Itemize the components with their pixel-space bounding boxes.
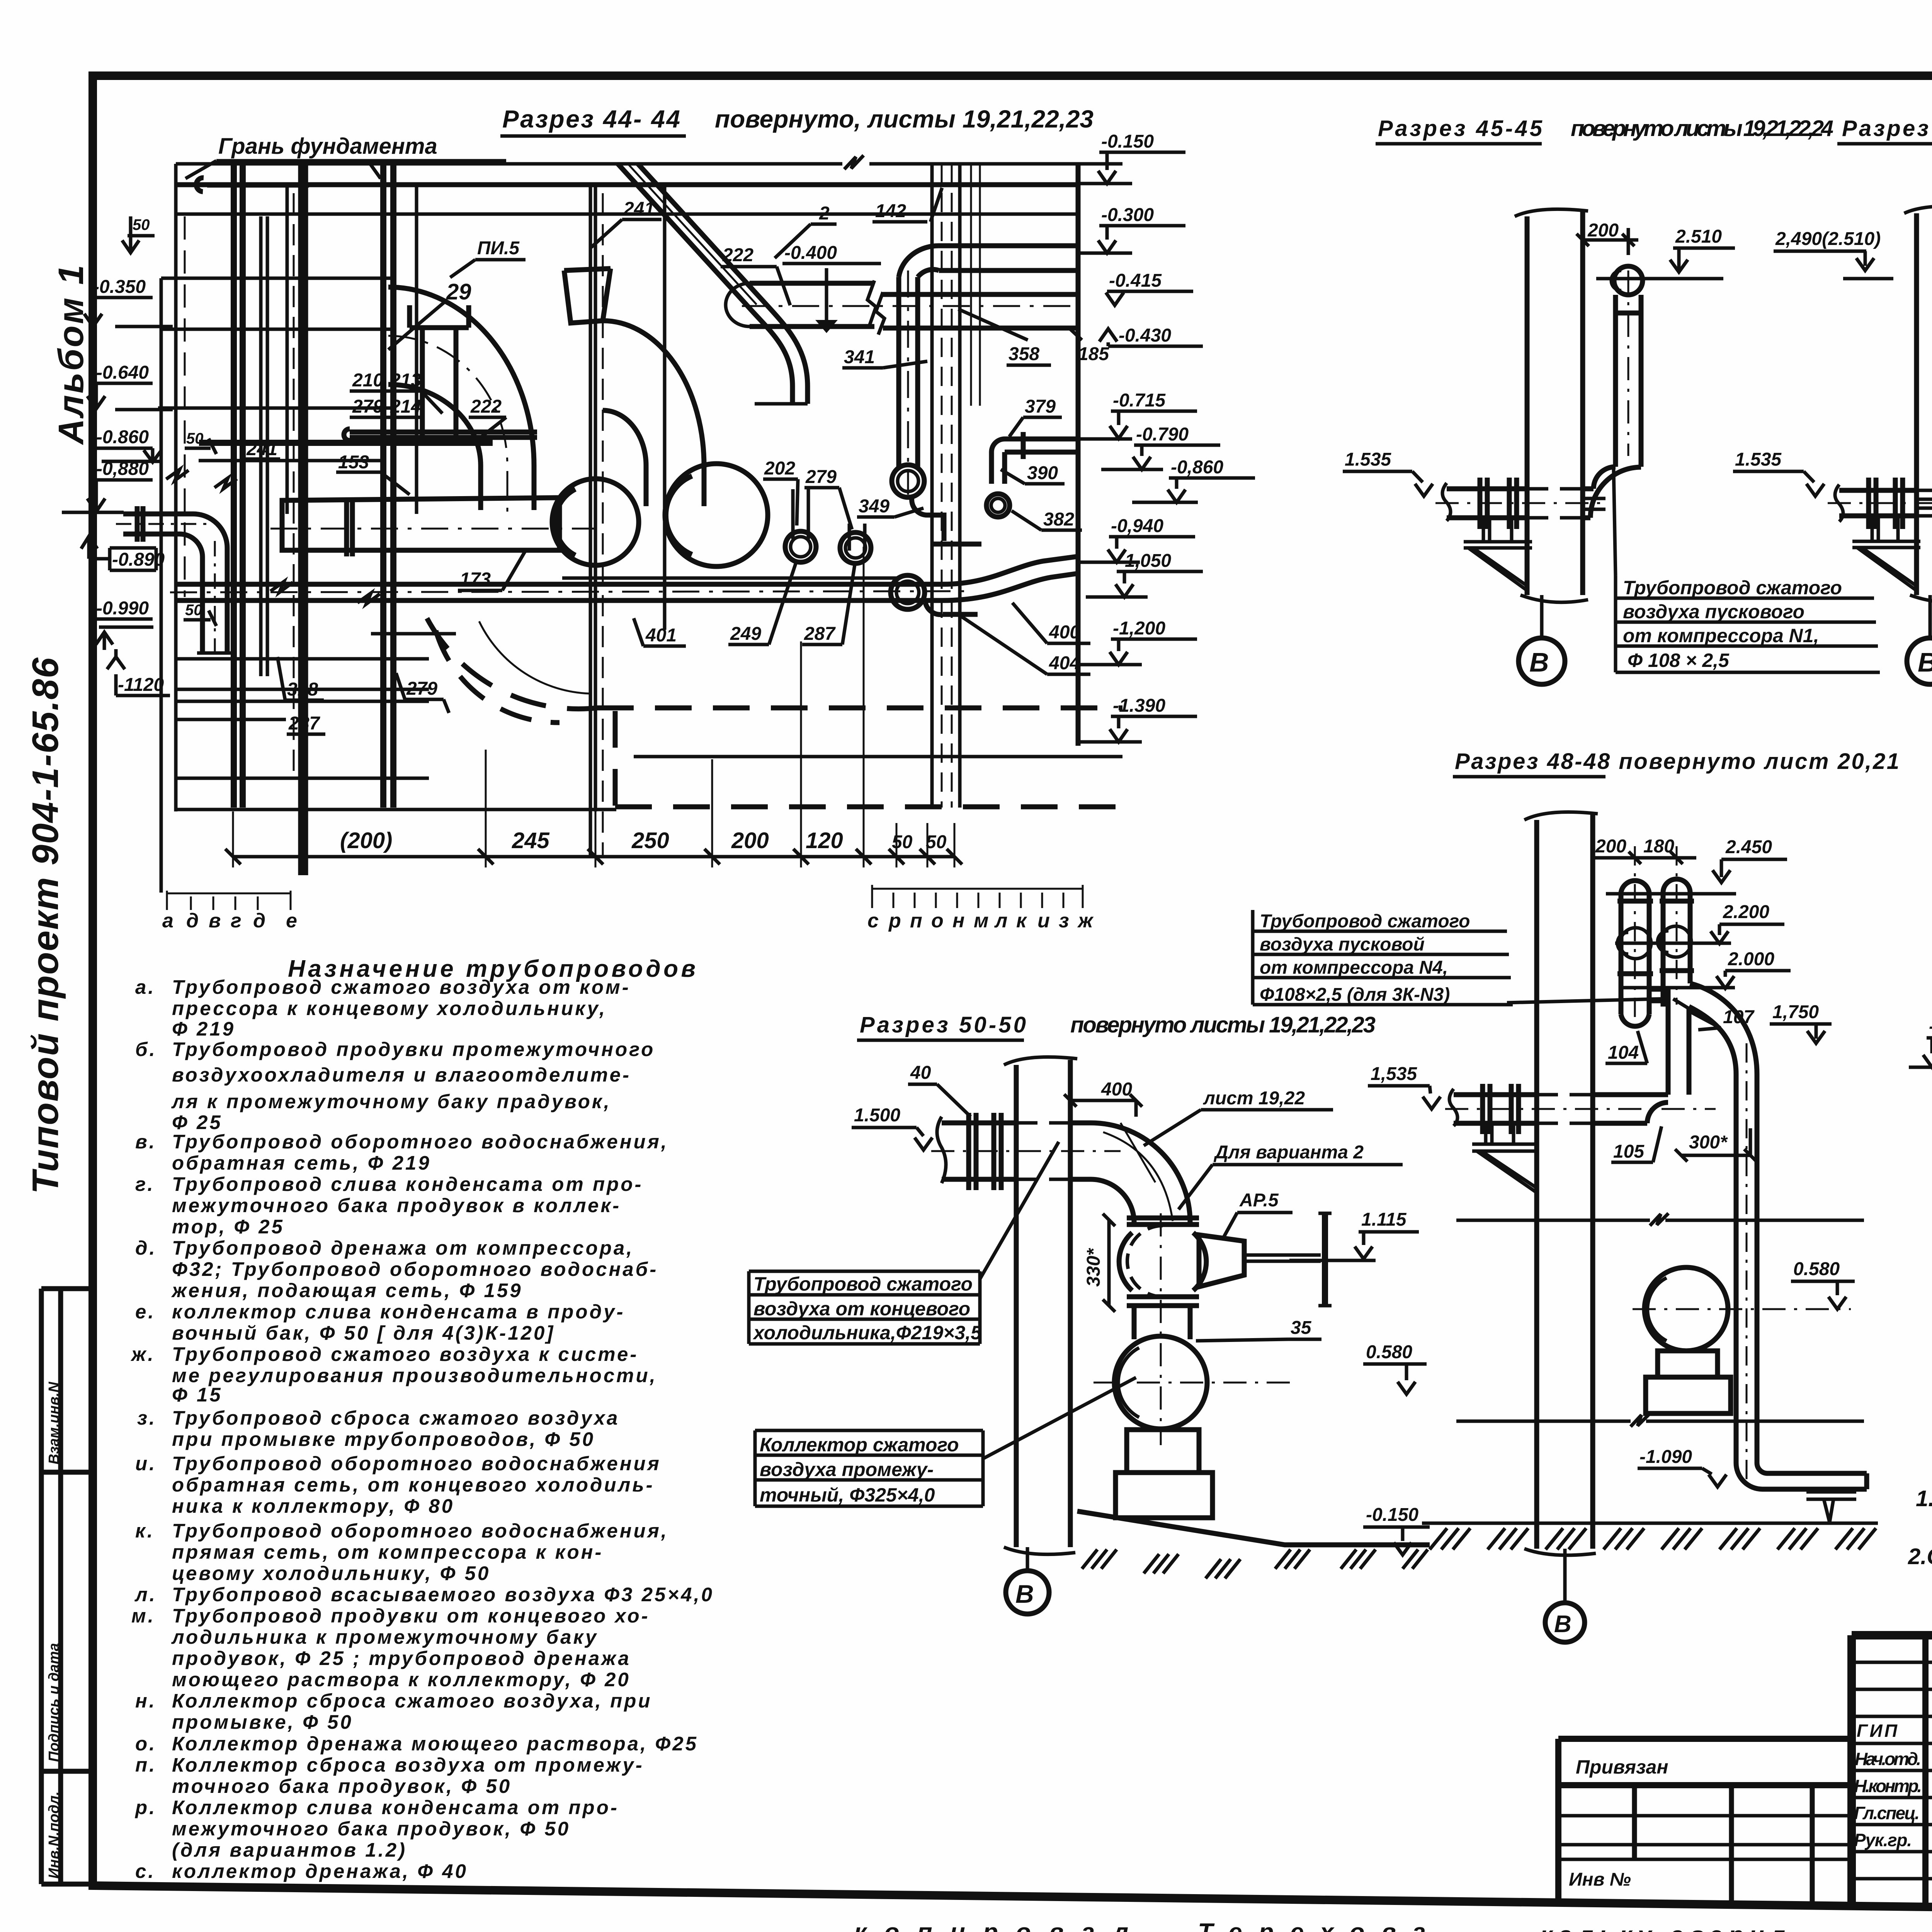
svg-text:Взам.инв.N: Взам.инв.N: [46, 1381, 62, 1464]
svg-text:1.500: 1.500: [854, 1105, 900, 1126]
svg-text:104: 104: [1608, 1043, 1639, 1063]
thin pipe under labels: [344, 429, 537, 440]
svg-text:2,490(2.510): 2,490(2.510): [1775, 229, 1881, 249]
svg-text:л: л: [994, 910, 1007, 932]
svg-text:200: 200: [1595, 836, 1626, 857]
svg-text:Трубопровод всасываемого возд: Трубопровод всасываемого воздуха Ф3 25×4…: [172, 1583, 714, 1605]
svg-text:АР.5: АР.5: [1239, 1190, 1279, 1211]
svg-text:повернуто листы 19,21,22,24: повернуто листы 19,21,22,24: [1571, 116, 1833, 141]
svg-text:лодильника к промежуточному: лодильника к промежуточному баку: [171, 1626, 598, 1648]
svg-text:Грань фундамента: Грань фундамента: [218, 134, 437, 159]
svg-text:Разрез 48-48 повернуто лист 2: Разрез 48-48 повернуто лист 20,21: [1455, 749, 1899, 774]
right elbow funnel top: [564, 269, 611, 323]
svg-text:-0.430: -0.430: [1119, 325, 1171, 346]
big pipe band B: [750, 283, 1078, 328]
svg-text:В: В: [1554, 1611, 1571, 1638]
diagonal pipe: [618, 164, 808, 404]
s48 B circle: [1563, 1549, 1567, 1603]
section 48-48: [1253, 749, 1899, 1642]
svg-text:В: В: [1015, 1580, 1034, 1608]
stamp roles: [1854, 1721, 1932, 1850]
svg-text:н: н: [952, 910, 964, 932]
svg-text:Нач.отд.: Нач.отд.: [1855, 1749, 1921, 1769]
svg-text:241: 241: [623, 199, 655, 219]
svg-text:р.: р.: [134, 1796, 156, 1818]
svg-text:б.: б.: [135, 1038, 157, 1060]
s48 riser valves: [1620, 928, 1651, 959]
svg-text:185: 185: [1078, 344, 1109, 364]
svg-text:Подпись и дата: Подпись и дата: [46, 1643, 62, 1762]
horizontal levels left: [158, 278, 390, 408]
svg-text:г.: г.: [135, 1173, 155, 1195]
svg-text:Трубопровод сжатого: Трубопровод сжатого: [1623, 577, 1842, 599]
dashed cut arc: [427, 618, 597, 709]
dim extension verticals: [233, 547, 954, 867]
svg-text:-0.715: -0.715: [1113, 390, 1166, 411]
purpose list: [130, 956, 714, 1882]
cut squiggle: [844, 155, 864, 169]
mid verticals: [286, 185, 289, 514]
svg-text:ме регулирования производител: ме регулирования производительности,: [172, 1364, 657, 1386]
svg-text:з: з: [1059, 910, 1069, 932]
s46 column: [1917, 209, 1932, 595]
svg-text:210: 210: [352, 370, 383, 391]
svg-text:Н.контр.: Н.контр.: [1854, 1776, 1922, 1796]
svg-text:-0.350: -0.350: [93, 277, 146, 297]
s46 horizontal pipe: [1839, 490, 1932, 516]
thick pillar 2: [383, 162, 393, 808]
section 50-50: [749, 1012, 1440, 1614]
svg-text:2.Отметка в скобках дана дл: 2.Отметка в скобках дана для вариантов 1…: [1908, 1544, 1932, 1569]
svg-text:воздуха от концевого: воздуха от концевого: [753, 1298, 970, 1320]
svg-text:287: 287: [288, 713, 320, 734]
svg-text:з.: з.: [137, 1407, 156, 1429]
svg-text:142: 142: [875, 201, 906, 221]
svg-text:Ф 108 × 2,5: Ф 108 × 2,5: [1628, 650, 1730, 671]
s46 B circle: [1929, 595, 1932, 638]
svg-text:400: 400: [1101, 1079, 1132, 1100]
construction verticals right part: [590, 185, 595, 857]
svg-text:404: 404: [1049, 653, 1080, 673]
bottom text: [854, 1918, 1932, 1932]
stub pipe C: [992, 439, 1078, 484]
svg-text:коллектор слива конденсата: коллектор слива конденсата в проду-: [172, 1301, 625, 1323]
floor line right of circles: [371, 578, 900, 634]
svg-text:к: к: [1016, 910, 1027, 932]
svg-text:о.: о.: [135, 1733, 156, 1755]
flange ticks pipe 173 left: [347, 498, 352, 556]
svg-text:349: 349: [859, 496, 889, 517]
svg-text:Гл.спец.: Гл.спец.: [1854, 1803, 1920, 1823]
svg-text:-0,880: -0,880: [96, 459, 149, 479]
svg-text:200: 200: [1587, 220, 1619, 241]
svg-text:вочный бак, Ф 50 [ для 4(3)К-: вочный бак, Ф 50 [ для 4(3)К-120]: [172, 1322, 555, 1344]
s45 B circle: [1540, 595, 1544, 638]
svg-text:Коллектор слива конденсата: Коллектор слива конденсата от про-: [172, 1796, 619, 1818]
svg-text:-0.790: -0.790: [1929, 1016, 1932, 1037]
svg-text:-1.390: -1.390: [1113, 696, 1165, 716]
svg-text:Трубопровод сжатого воздуха от: Трубопровод сжатого воздуха от ком-: [172, 976, 631, 998]
flange circle on pipe 400: [891, 575, 925, 609]
svg-text:358: 358: [1009, 344, 1039, 364]
attach table Привязан: [1558, 1739, 1852, 1904]
sections 45 46 47: [1343, 116, 1932, 684]
svg-text:-1.090: -1.090: [1639, 1447, 1692, 1467]
svg-text:о: о: [931, 910, 944, 932]
right elbow 213 inner: [603, 410, 646, 506]
svg-text:ГИП: ГИП: [1857, 1721, 1898, 1741]
svg-text:а: а: [162, 910, 173, 932]
long bottom pipe 400: [176, 556, 1078, 600]
vertical pipe V1 with top elbow: [899, 246, 939, 467]
svg-text:1,750: 1,750: [1772, 1002, 1819, 1022]
svg-text:-0.415: -0.415: [1109, 270, 1162, 291]
svg-text:200: 200: [731, 828, 769, 853]
svg-text:153: 153: [338, 452, 369, 473]
svg-text:2.200: 2.200: [1723, 902, 1769, 922]
svg-text:-0.860: -0.860: [96, 427, 149, 447]
svg-text:2.000: 2.000: [1728, 949, 1774, 969]
svg-text:249: 249: [730, 624, 761, 644]
s50 label box 1: [749, 1142, 1059, 1344]
svg-text:Инв №: Инв №: [1569, 1869, 1631, 1890]
s50 pipe below valve: [1134, 1306, 1190, 1339]
svg-text:Трубопровод оборотного водосн: Трубопровод оборотного водоснабжения,: [172, 1520, 668, 1542]
svg-text:-0,940: -0,940: [1111, 516, 1163, 536]
svg-text:Трубопровод оборотного водосна: Трубопровод оборотного водоснабжения,: [172, 1131, 668, 1153]
svg-text:от компрессора N1,: от компрессора N1,: [1623, 625, 1819, 646]
bottom dimension line: [233, 855, 954, 859]
svg-text:ж: ж: [1077, 910, 1094, 932]
flange circle on V1: [892, 465, 924, 497]
svg-text:в.: в.: [135, 1131, 156, 1153]
svg-text:Ф 25: Ф 25: [172, 1111, 223, 1133]
svg-text:50: 50: [926, 832, 947, 852]
svg-text:промывке, Ф 50: промывке, Ф 50: [172, 1711, 353, 1733]
svg-text:цевому холодильнику, Ф 50: цевому холодильнику, Ф 50: [172, 1562, 490, 1584]
small pipe pair with circles: [793, 489, 865, 551]
svg-text:Ф 15: Ф 15: [172, 1384, 223, 1406]
s50 label box 2: [755, 1378, 1136, 1506]
pipe 173 band: [282, 498, 560, 550]
svg-text:Разрез 46-46: Разрез 46-46: [1842, 116, 1932, 141]
lower area lines: [176, 659, 616, 810]
s48 horizontal pipe: [1454, 1095, 1668, 1123]
hook symbol top left: [196, 178, 309, 192]
svg-text:Шась: Шась: [1812, 1930, 1866, 1932]
svg-text:г: г: [231, 910, 241, 932]
svg-text:при промывке трубопроводов,: при промывке трубопроводов, Ф 50: [172, 1428, 595, 1450]
svg-text:1.115: 1.115: [1361, 1209, 1407, 1230]
construction verticals left: [161, 164, 176, 893]
svg-text:-0.150: -0.150: [1366, 1505, 1418, 1525]
left margin boxes: [25, 264, 93, 1884]
svg-text:222: 222: [470, 396, 502, 417]
svg-text:Для варианта 2: Для варианта 2: [1213, 1142, 1364, 1163]
svg-text:повернуто, листы 19,21,22,23: повернуто, листы 19,21,22,23: [715, 105, 1094, 133]
big elbow 29 centerline: [388, 336, 507, 514]
svg-text:2.450: 2.450: [1725, 837, 1772, 857]
svg-text:50: 50: [133, 216, 150, 233]
section 49-49: [0, 0, 0, 0]
axis letters right: [867, 910, 1094, 932]
svg-text:точного бака продувок, Ф 50: точного бака продувок, Ф 50: [172, 1775, 512, 1797]
svg-text:50: 50: [185, 602, 202, 619]
svg-text:2: 2: [819, 203, 830, 224]
s50 handwheel: [1322, 1213, 1328, 1306]
s45 label box: [1614, 469, 1880, 672]
svg-text:ля к промежуточному баку праду: ля к промежуточному баку прадувок,: [171, 1090, 611, 1112]
svg-text:Ф 219: Ф 219: [172, 1018, 235, 1040]
svg-text:Привязан: Привязан: [1576, 1756, 1668, 1778]
svg-text:В: В: [1529, 647, 1549, 677]
margin box Подпись и дата: [41, 1769, 93, 1774]
stamp outer border: [1852, 1635, 1932, 1906]
s50 big circle: [1114, 1336, 1207, 1429]
svg-text:п.: п.: [135, 1754, 156, 1776]
svg-text:ПИ.5: ПИ.5: [477, 238, 520, 259]
margin box Инв.N подл.: [41, 1882, 93, 1887]
svg-text:Коллектор сброса воздуха от: Коллектор сброса воздуха от промежу-: [172, 1754, 644, 1776]
svg-text:(для вариантов 1.2): (для вариантов 1.2): [172, 1839, 407, 1861]
svg-text:продувок, Ф 25 ; трубопровод: продувок, Ф 25 ; трубопровод дренажа: [172, 1647, 631, 1669]
svg-text:воздуха промежу-: воздуха промежу-: [760, 1459, 934, 1480]
svg-text:330*: 330*: [1083, 1248, 1104, 1287]
svg-text:межуточного бака продувок в: межуточного бака продувок в коллек-: [172, 1194, 621, 1216]
svg-text:-0.150: -0.150: [1101, 131, 1154, 152]
svg-text:Трубопровод сжатого: Трубопровод сжатого: [753, 1273, 973, 1295]
svg-text:е.: е.: [135, 1301, 156, 1323]
svg-text:ника к коллектору, Ф 80: ника к коллектору, Ф 80: [172, 1495, 454, 1517]
svg-text:-0.790: -0.790: [1136, 424, 1189, 445]
svg-text:-0.400: -0.400: [784, 243, 837, 263]
break squiggles: [166, 469, 380, 604]
slab line thick: [199, 440, 493, 446]
svg-text:лист 19,22: лист 19,22: [1203, 1088, 1305, 1109]
svg-text:Коллектор сброса сжатого во: Коллектор сброса сжатого воздуха, при: [172, 1690, 652, 1712]
svg-text:245: 245: [512, 828, 550, 853]
left flange ticks: [137, 506, 143, 542]
PI5 column funnel: [410, 305, 469, 440]
svg-text:от компрессора N4,: от компрессора N4,: [1260, 957, 1448, 978]
svg-text:Трубопровод слива конденсата: Трубопровод слива конденсата от про-: [172, 1173, 643, 1195]
big circle 2: [665, 464, 768, 566]
svg-text:и: и: [1037, 910, 1050, 932]
svg-text:п: п: [910, 910, 922, 932]
axis letters left: [162, 910, 297, 932]
svg-text:-0,860: -0,860: [1171, 457, 1223, 478]
svg-text:воздуха пускового: воздуха пускового: [1623, 601, 1804, 622]
svg-text:Типовой проект 904-1-65.86: Типовой проект 904-1-65.86: [25, 657, 66, 1194]
s45 riser pipe: [1590, 295, 1641, 518]
s48 pedestal: [1646, 1351, 1731, 1413]
svg-text:В: В: [1918, 647, 1932, 677]
s50 column: [1016, 1060, 1070, 1547]
svg-text:Ф108×2,5 (для 3К-N3): Ф108×2,5 (для 3К-N3): [1260, 985, 1450, 1005]
s50 horizontal pipe: [942, 1123, 1091, 1179]
svg-text:д: д: [186, 910, 199, 932]
svg-text:-1120: -1120: [118, 675, 164, 695]
svg-text:повернуто листы 19,21,22,23: повернуто листы 19,21,22,23: [1070, 1012, 1376, 1037]
svg-text:107: 107: [1723, 1007, 1755, 1027]
s50 valve bonnet: [1199, 1235, 1244, 1287]
svg-text:0.580: 0.580: [1793, 1259, 1840, 1279]
s48 left label box N4: [1253, 910, 1662, 1005]
svg-text:Разрез 44- 44: Разрез 44- 44: [502, 105, 680, 133]
svg-text:тор, Ф 25: тор, Ф 25: [172, 1216, 284, 1238]
svg-text:279: 279: [406, 679, 437, 699]
svg-text:40: 40: [910, 1063, 931, 1083]
svg-text:Труботровод продувки протежу: Труботровод продувки протежуточного: [172, 1038, 655, 1060]
svg-text:воздухоохладителя и влагоотдел: воздухоохладителя и влагоотделите-: [172, 1064, 631, 1086]
svg-text:межуточного бака продувок, Ф: межуточного бака продувок, Ф 50: [172, 1818, 570, 1840]
svg-text:обратная сеть, от концевого хо: обратная сеть, от концевого холодиль-: [172, 1474, 655, 1496]
svg-text:Трубопровод сжатого: Трубопровод сжатого: [1260, 911, 1470, 932]
svg-text:моющего раствора к коллектор: моющего раствора к коллектору, Ф 20: [172, 1668, 631, 1690]
svg-text:-0.300: -0.300: [1101, 205, 1154, 225]
s50 valve body: [1127, 1226, 1163, 1297]
s50 elbow down: [1091, 1123, 1190, 1223]
second structure line: [176, 182, 1078, 187]
svg-text:м.: м.: [131, 1605, 155, 1627]
left elbow pipe: [123, 514, 227, 653]
s45 flanges: [1480, 478, 1517, 529]
title block: [1558, 1600, 1932, 1913]
svg-text:-1,050: -1,050: [1119, 551, 1171, 571]
svg-text:341: 341: [844, 347, 875, 367]
s48 S-bend to down pipe: [1689, 983, 1757, 1463]
svg-text:-0.990: -0.990: [96, 598, 149, 619]
svg-text:401: 401: [645, 625, 677, 646]
svg-text:с: с: [867, 910, 879, 932]
svg-text:прямая сеть, от компрессора: прямая сеть, от компрессора к кон-: [172, 1541, 603, 1563]
dashed region outline: [597, 708, 1122, 807]
svg-text:Рук.гр.: Рук.гр.: [1854, 1830, 1912, 1850]
svg-text:прессора к концевому холодильн: прессора к концевому холодильнику,: [172, 997, 607, 1019]
svg-text:382: 382: [1043, 509, 1074, 530]
svg-text:обратная сеть, Ф 219: обратная сеть, Ф 219: [172, 1152, 431, 1174]
svg-text:Трубопровод сжатого воздуха: Трубопровод сжатого воздуха к систе-: [172, 1343, 638, 1365]
top structure line: [176, 162, 1122, 166]
svg-text:Инв.N.подл.: Инв.N.подл.: [46, 1791, 62, 1879]
svg-text:воздуха пусковой: воздуха пусковой: [1260, 934, 1425, 955]
margin box Взам.инв.N: [41, 1289, 93, 1884]
section 44-44: [62, 105, 1255, 932]
svg-text:250: 250: [631, 828, 669, 853]
svg-text:(200): (200): [340, 828, 392, 853]
svg-text:400: 400: [1049, 622, 1080, 643]
svg-text:д: д: [253, 910, 265, 932]
stamp left grid rows: [1852, 1662, 1932, 1879]
svg-text:222: 222: [722, 245, 753, 265]
svg-text:1,535: 1,535: [1371, 1064, 1417, 1084]
svg-text:-0.640: -0.640: [96, 362, 149, 383]
svg-text:35: 35: [1291, 1318, 1312, 1338]
s48 flanges: [1483, 1084, 1519, 1134]
svg-text:Трубопровод дренажа от компр: Трубопровод дренажа от компрессора,: [172, 1237, 634, 1259]
s45 support bracket: [1464, 518, 1532, 590]
s48 pipe support pin: [1806, 1492, 1856, 1522]
svg-text:300*: 300*: [1689, 1132, 1728, 1153]
small circle 382: [986, 494, 1010, 517]
svg-text:холодильника,Ф219×3,5: холодильника,Ф219×3,5: [752, 1322, 982, 1344]
s50 B circle: [1026, 1547, 1029, 1571]
svg-text:ж.: ж.: [130, 1343, 155, 1365]
svg-text:Трубопровод оборотного водосн: Трубопровод оборотного водоснабжения: [172, 1452, 661, 1475]
s46 flanges: [1869, 478, 1903, 529]
svg-text:1.535: 1.535: [1735, 449, 1782, 470]
svg-text:213: 213: [390, 370, 421, 391]
svg-text:коллектор дренажа, Ф 40: коллектор дренажа, Ф 40: [172, 1860, 468, 1882]
s45 level line top: [1596, 277, 1723, 281]
big elbow 29 outer: [388, 287, 534, 510]
svg-text:с.: с.: [135, 1860, 156, 1882]
s48 support bracket: [1472, 1123, 1537, 1192]
pipe band A right: [939, 246, 1078, 270]
svg-text:р: р: [888, 910, 901, 932]
hook 349: [912, 497, 981, 544]
stamp left grid verticals: [1925, 1635, 1932, 1910]
right wall line: [1076, 162, 1081, 746]
svg-text:Трубопровод сброса сжатого: Трубопровод сброса сжатого воздуха: [172, 1407, 619, 1429]
svg-text:Разрез 45-45: Разрез 45-45: [1378, 116, 1543, 141]
svg-text:м: м: [974, 910, 988, 932]
svg-text:а.: а.: [135, 976, 156, 998]
svg-text:е: е: [286, 910, 297, 932]
section 49-49: [1908, 747, 1932, 1569]
svg-text:105: 105: [1613, 1141, 1645, 1162]
s48 column: [1537, 815, 1593, 1549]
s45 column: [1527, 212, 1583, 595]
flange tick stub: [1021, 432, 1026, 459]
svg-text:180: 180: [1643, 836, 1674, 857]
svg-text:л.: л.: [134, 1583, 157, 1605]
section 50-50: [0, 0, 0, 0]
s48 floor lines: [1456, 1213, 1864, 1226]
thick pillar 1: [234, 162, 243, 808]
big circle 1: [552, 479, 639, 565]
svg-text:1.* Размеры для справок.: 1.* Размеры для справок.: [1916, 1486, 1932, 1511]
svg-text:0.580: 0.580: [1366, 1342, 1412, 1362]
s45 horizontal pipe: [1447, 489, 1594, 518]
svg-text:1.535: 1.535: [1345, 449, 1391, 470]
svg-text:д.: д.: [135, 1237, 157, 1259]
svg-text:жения, подающая сеть, Ф 159: жения, подающая сеть, Ф 159: [171, 1279, 523, 1301]
svg-text:29: 29: [446, 279, 471, 304]
s45 top circle: [1614, 266, 1643, 295]
svg-text:379: 379: [1025, 396, 1056, 417]
s48 risers: [1621, 879, 1690, 1026]
s50 ground: [1077, 1511, 1430, 1545]
svg-text:120: 120: [806, 828, 843, 853]
s50 valve flange plates: [1127, 1218, 1199, 1306]
svg-text:Разрез 50-50: Разрез 50-50: [860, 1012, 1026, 1037]
svg-text:202: 202: [764, 458, 795, 479]
svg-text:Альбом 1: Альбом 1: [51, 264, 91, 445]
svg-text:Коллектор дренажа моющего ра: Коллектор дренажа моющего раствора, Ф25: [172, 1733, 698, 1755]
svg-text:точный, Ф325×4,0: точный, Ф325×4,0: [760, 1484, 935, 1506]
svg-text:н.: н.: [135, 1690, 156, 1712]
s48 bottom elbow: [1736, 1463, 1867, 1489]
svg-text:318: 318: [287, 679, 318, 700]
svg-text:279: 279: [352, 396, 383, 417]
s50 pipe flanges: [969, 1113, 1001, 1190]
s48 ground hatch: [1430, 1528, 1876, 1549]
s48 big circle: [1645, 1267, 1728, 1351]
svg-text:279: 279: [805, 467, 837, 487]
svg-text:Ф32; Трубопровод оборотного в: Ф32; Трубопровод оборотного водоснаб-: [172, 1258, 658, 1280]
big elbow 29 inner: [388, 384, 481, 510]
